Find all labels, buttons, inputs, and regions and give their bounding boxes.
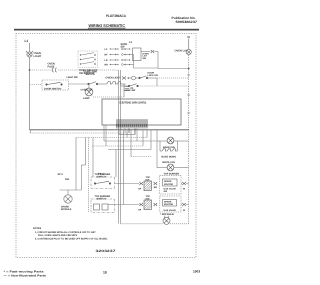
surface switch row 4 bbox=[105, 64, 131, 67]
svg-text:2. CONTINUOUS PILOT TO BE USED: 2. CONTINUOUS PILOT TO BE USED OFF SUPPL… bbox=[35, 238, 108, 241]
switch on bake row bbox=[88, 82, 98, 85]
top burner switch box 2 bbox=[91, 199, 115, 213]
fuse F1 bbox=[52, 68, 56, 72]
junction dot on N bus bbox=[188, 68, 190, 70]
switch row y86 bbox=[128, 84, 138, 87]
oven light round lamp bbox=[88, 84, 90, 88]
wire drop x85.5 jog x81.5 bbox=[85, 138, 87, 166]
connector marks bbox=[125, 87, 130, 91]
svg-text:LR: LR bbox=[105, 59, 108, 62]
wire bus y141 bbox=[104, 140, 157, 142]
top burner valve box 2 bbox=[160, 196, 181, 212]
resistor heater zigzag bbox=[98, 82, 126, 85]
svg-text:BROIL IGN: BROIL IGN bbox=[163, 161, 176, 164]
oven selector switch box bbox=[78, 51, 98, 68]
top burner valve box 1 bbox=[160, 175, 182, 194]
wire bus vertical x120.5 bbox=[120, 70, 122, 224]
svg-text:1903: 1903 bbox=[193, 270, 200, 274]
svg-text:NOTES: NOTES bbox=[33, 227, 42, 230]
svg-text:IGNITOR: IGNITOR bbox=[164, 183, 173, 186]
svg-text:L1: L1 bbox=[25, 39, 29, 43]
svg-text:ELECTRONIC OVEN CONTROL: ELECTRONIC OVEN CONTROL bbox=[120, 101, 147, 104]
surface switch row 3 bbox=[105, 59, 131, 62]
svg-text:19: 19 bbox=[103, 271, 107, 275]
wire drop x88.5 bbox=[88, 138, 90, 213]
svg-text:WIRING SCHEMATIC: WIRING SCHEMATIC bbox=[89, 23, 126, 28]
wire to oven lamp bbox=[155, 51, 158, 53]
bake ignitor row bbox=[156, 130, 158, 141]
lamp small on row y78 bbox=[132, 76, 136, 80]
wire drop x116 bbox=[115, 150, 117, 178]
surface switch row 1 bbox=[105, 48, 131, 51]
junction dot bbox=[29, 69, 31, 71]
wire drop x76 bbox=[75, 138, 77, 191]
svg-text:IGN: IGN bbox=[146, 178, 150, 181]
spark ignitor hatched block row2 bbox=[144, 200, 152, 210]
wire bus y137.5 bbox=[76, 137, 147, 139]
wire bus y128.5 bbox=[30, 129, 189, 131]
svg-text:GAS VALVE: GAS VALVE bbox=[164, 209, 177, 212]
svg-text:BR: BR bbox=[154, 186, 158, 189]
spark ignitor hatched block row1 bbox=[144, 181, 152, 191]
wire row y70 bbox=[30, 69, 53, 71]
small boxes inside bbox=[94, 204, 100, 210]
wire L1 vertical bbox=[29, 43, 31, 130]
svg-text:N: N bbox=[188, 35, 190, 39]
broil row wire bbox=[157, 167, 167, 169]
bake ignitor bbox=[167, 137, 174, 144]
svg-text:LIGHT SW: LIGHT SW bbox=[67, 76, 79, 79]
wire corner down at x126 bbox=[123, 84, 125, 97]
connector comb pins bbox=[117, 119, 147, 135]
connector row2 right bbox=[182, 203, 186, 206]
wire drops from comb bbox=[123, 130, 125, 205]
wire bus vertical x118.5 bbox=[118, 70, 120, 224]
oven lamp symbol bbox=[186, 49, 191, 54]
bottom wire y224 bbox=[121, 223, 164, 225]
wire bus y131.5 bbox=[29, 130, 31, 133]
connector ticks on N bus bbox=[187, 75, 190, 113]
top rule bbox=[14, 29, 199, 31]
wire row y78 to right bbox=[148, 77, 157, 79]
electronic oven control box bbox=[102, 99, 181, 125]
svg-text:LOCK SW: LOCK SW bbox=[124, 89, 136, 92]
wire row y86 to right bbox=[138, 85, 188, 87]
svg-text:* = Fast-moving Parts: * = Fast-moving Parts bbox=[4, 270, 45, 273]
svg-text:SP-2: SP-2 bbox=[58, 173, 64, 176]
svg-text:SPARK: SPARK bbox=[164, 180, 172, 183]
svg-text:SWITCH: SWITCH bbox=[86, 73, 95, 76]
svg-text:— = Non-Illustrated Parts: — = Non-Illustrated Parts bbox=[4, 275, 47, 278]
wire bus y149.5 bbox=[108, 149, 151, 151]
svg-text:* 40W BULB: * 40W BULB bbox=[160, 213, 174, 216]
svg-text:IGNITOR: IGNITOR bbox=[164, 203, 173, 206]
svg-text:SWITCH: SWITCH bbox=[97, 198, 107, 201]
svg-text:BAKE BURN: BAKE BURN bbox=[162, 156, 177, 159]
connector row1 mid bbox=[154, 182, 158, 185]
svg-text:LIGHT: LIGHT bbox=[34, 55, 42, 58]
wire bus y146 bbox=[92, 145, 143, 147]
wire y190 bbox=[60, 189, 82, 191]
svg-text:5995386237: 5995386237 bbox=[176, 20, 198, 24]
svg-text:LOCK SW: LOCK SW bbox=[148, 74, 159, 77]
svg-text:OVEN LIGHT: OVEN LIGHT bbox=[106, 77, 122, 80]
svg-text:FULL OVEN LIGHTS AND CIRCUITS: FULL OVEN LIGHTS AND CIRCUITS bbox=[38, 234, 78, 237]
surface switch row 2 bbox=[105, 54, 131, 57]
indicator light PL1 bbox=[26, 51, 33, 57]
svg-text:DOOR SWITCH: DOOR SWITCH bbox=[44, 87, 62, 90]
connector block dark row bbox=[117, 120, 147, 124]
row y78: connector bbox=[122, 77, 126, 80]
svg-text:LAMP: LAMP bbox=[83, 97, 90, 100]
connector row1 right bbox=[182, 182, 186, 185]
svg-text:IGN: IGN bbox=[65, 178, 70, 181]
connector row2 mid bbox=[154, 203, 158, 206]
border frame bbox=[16, 34, 196, 258]
wire row y84 mid bbox=[69, 83, 88, 85]
pilot relay box bbox=[133, 48, 142, 61]
top burner switch box 1 bbox=[91, 177, 115, 189]
wire row y84.5 left bbox=[30, 84, 43, 86]
svg-text:3203237: 3203237 bbox=[96, 249, 116, 253]
connector plug bbox=[151, 50, 155, 53]
svg-text:1. CIRCUIT SHOWN WITH ALL CONT: 1. CIRCUIT SHOWN WITH ALL CONTROLS OFF T… bbox=[35, 231, 96, 234]
wire bus y156.5 bbox=[131, 156, 151, 158]
svg-text:RR: RR bbox=[105, 64, 109, 67]
bake burner loop bbox=[159, 141, 161, 151]
switch row y78 bbox=[139, 76, 148, 79]
broil ignitor bbox=[167, 164, 174, 171]
wire relay to node bbox=[141, 51, 150, 53]
bake burner zigzag bbox=[160, 149, 178, 151]
svg-text:IGN: IGN bbox=[146, 197, 150, 200]
wire bus y134.5 bbox=[119, 134, 135, 136]
connector row1 bbox=[139, 182, 143, 185]
spark ignitor circle bbox=[64, 195, 72, 203]
svg-text:OVEN LGT: OVEN LGT bbox=[81, 89, 93, 92]
wire neutral bus bbox=[188, 39, 190, 50]
svg-text:SWITCH: SWITCH bbox=[97, 176, 107, 179]
wire bracket right of switch bank bbox=[133, 55, 135, 65]
wire box1 to bus bbox=[115, 183, 140, 185]
svg-text:TOP BURNER: TOP BURNER bbox=[164, 173, 180, 176]
wire box2 to bus bbox=[115, 204, 140, 206]
door switch box bbox=[42, 80, 69, 90]
connector row2 bbox=[139, 203, 143, 206]
svg-text:FUSE: FUSE bbox=[48, 65, 55, 68]
wire drop x93 bbox=[92, 138, 94, 178]
wire dotted y95.5 bbox=[93, 96, 124, 98]
svg-text:MODULE: MODULE bbox=[61, 208, 72, 211]
bottom lamp symbol bbox=[163, 216, 170, 225]
svg-text:PLGF389ACA: PLGF389ACA bbox=[106, 14, 126, 18]
